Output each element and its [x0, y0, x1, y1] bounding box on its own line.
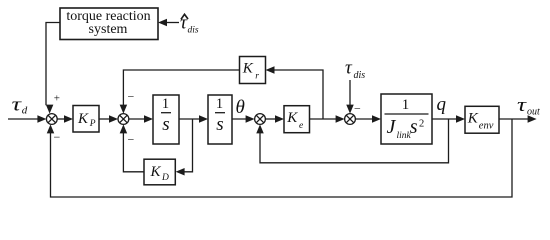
svg-text:s: s [162, 114, 169, 135]
label minus at junction D top [354, 102, 361, 116]
label plus at junction A top [54, 93, 60, 105]
label minus at junction B top [128, 90, 135, 104]
svg-text:1: 1 [162, 96, 169, 112]
wire Jlink to Kenv [432, 118, 460, 120]
svg-text:τ: τ [517, 95, 528, 116]
svg-text:K: K [150, 164, 162, 180]
arrow into junction B bottom [120, 124, 128, 133]
svg-text:dis: dis [188, 26, 199, 36]
wire Ke to junction D [310, 118, 340, 120]
wire junction C to Ke [265, 118, 279, 120]
label Kr text [242, 61, 259, 82]
label theta [236, 97, 245, 118]
svg-text:s: s [410, 116, 418, 138]
arrow into junction A left [37, 115, 46, 123]
arrow into junction A top [46, 105, 54, 114]
summing junction C [255, 114, 266, 125]
svg-text:θ: θ [236, 97, 245, 118]
arrow into junction D left [336, 115, 345, 123]
block Ke [284, 106, 310, 133]
label tau_out [517, 95, 540, 118]
wire Kr feedback tap up from Ke output [271, 70, 323, 119]
summing junction A [46, 114, 57, 125]
svg-text:out: out [527, 107, 540, 118]
wire Kr output to junction B top [123, 70, 239, 110]
arrow into second integrator [199, 115, 208, 123]
fraction bar second integrator [215, 112, 225, 114]
wire junction D to Jlink block [355, 118, 376, 120]
svg-text:D: D [161, 173, 169, 183]
svg-text:P: P [89, 119, 96, 129]
label KD text [150, 164, 170, 183]
wire tau_dis down into junction D [349, 80, 351, 111]
arrow into Kr right edge [266, 66, 275, 74]
arrow into first integrator [144, 115, 153, 123]
label KP text [77, 111, 96, 129]
label q [437, 94, 447, 115]
arrow into junction C bottom [256, 124, 264, 133]
label tau_dis disturbance [345, 58, 365, 82]
arrow into junction A bottom [47, 124, 55, 133]
svg-text:s: s [216, 114, 223, 135]
fraction bar first integrator [161, 112, 171, 114]
svg-text:1: 1 [402, 97, 410, 113]
block integrator 1/s second [208, 95, 232, 144]
label tau_hat_dis [180, 13, 199, 36]
arrow into Jlink block [372, 115, 381, 123]
wire KD tap down from between integrators [181, 119, 193, 172]
block Kr [240, 57, 266, 84]
svg-text:system: system [89, 22, 128, 37]
svg-text:−: − [128, 90, 135, 104]
block integrator 1/s first [153, 95, 179, 144]
svg-text:J: J [387, 116, 397, 138]
svg-text:K: K [77, 111, 89, 127]
wire tau_d input [8, 118, 41, 120]
label first integrator 1 over s [162, 96, 170, 135]
arrow into Kenv [456, 115, 465, 123]
svg-text:dis: dis [354, 70, 366, 81]
svg-text:1: 1 [216, 96, 223, 112]
arrow into KP [64, 115, 73, 123]
arrow into KD right edge [176, 168, 185, 176]
summing junction D [345, 114, 356, 125]
svg-text:r: r [255, 71, 259, 81]
svg-text:K: K [467, 111, 479, 127]
block Kenv [465, 106, 499, 133]
svg-text:−: − [54, 130, 61, 144]
label tau_d [12, 95, 28, 117]
svg-text:K: K [286, 110, 298, 126]
block torque reaction system [60, 8, 158, 40]
arrow into Ke [275, 115, 284, 123]
fraction bar Jlink block [385, 113, 429, 115]
arrow into torque reaction system right edge [158, 19, 167, 27]
wire middle feedback from q to junction C [260, 119, 449, 163]
svg-text:q: q [437, 94, 447, 115]
wire Kenv to tau_out [499, 118, 532, 120]
label minus at junction A bottom [54, 130, 61, 144]
svg-text:e: e [299, 121, 303, 131]
svg-text:d: d [22, 105, 28, 117]
label Jlink fraction text [387, 97, 425, 141]
summing junction B [118, 114, 129, 125]
svg-text:−: − [128, 132, 135, 146]
label minus at junction B bottom [128, 132, 135, 146]
block KP [73, 106, 99, 133]
wire tau_hat_dis into torque reaction system [163, 22, 179, 24]
label Kenv text [467, 111, 494, 132]
wire bottom feedback from tau_out to junction A [51, 119, 513, 197]
arrow into junction D top [346, 105, 354, 114]
wire from torque reaction system down to junction A [46, 23, 60, 106]
svg-text:−: − [354, 102, 361, 116]
label torque reaction system text [66, 9, 150, 37]
svg-text:+: + [54, 93, 60, 105]
wire integrator1 to integrator2 [179, 118, 203, 120]
wire integrator2 to junction C [232, 118, 250, 120]
wire KP to junction B [99, 118, 113, 120]
svg-text:env: env [479, 120, 494, 131]
arrow into junction C left [246, 115, 255, 123]
wire junction B to first integrator [129, 118, 148, 120]
wire junction A to KP [57, 118, 68, 120]
arrow into junction B left [109, 115, 118, 123]
arrow into junction B top [120, 105, 128, 114]
label Ke text [286, 110, 303, 131]
wire KD output to junction B bottom [123, 128, 144, 172]
label second integrator 1 over s [216, 96, 224, 135]
block 1/(Jlink s^2) [381, 94, 432, 144]
svg-text:2: 2 [419, 119, 424, 130]
arrow tau_out output [528, 115, 537, 123]
svg-text:τ: τ [345, 58, 353, 79]
svg-text:K: K [242, 61, 254, 77]
block KD [144, 159, 175, 185]
